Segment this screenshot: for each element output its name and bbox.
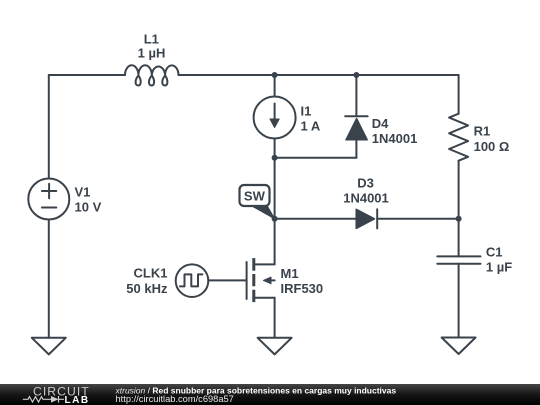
svg-text:1 µH: 1 µH bbox=[138, 46, 166, 61]
svg-text:CLK1: CLK1 bbox=[134, 266, 168, 281]
node top rail / D4 bbox=[353, 72, 359, 78]
svg-text:IRF530: IRF530 bbox=[281, 281, 324, 296]
svg-text:1N4001: 1N4001 bbox=[372, 131, 418, 146]
wire gate bbox=[208, 279, 246, 281]
wire D3 cathode to R1/C1 node bbox=[377, 218, 458, 220]
node R1 / D3 / C1 bbox=[456, 216, 462, 222]
wire top-left horizontal bbox=[49, 74, 125, 76]
svg-text:http://circuitlab.com/c698a57: http://circuitlab.com/c698a57 bbox=[116, 394, 234, 404]
clock source CLK1 bbox=[176, 264, 209, 297]
svg-text:R1: R1 bbox=[474, 124, 491, 139]
svg-text:1 µF: 1 µF bbox=[486, 260, 512, 275]
junction dots bbox=[272, 72, 462, 222]
wire D3 anode bbox=[275, 218, 357, 220]
capacitor C1 bbox=[437, 256, 480, 263]
voltage source V1 bbox=[28, 179, 69, 220]
svg-text:LAB: LAB bbox=[65, 395, 90, 405]
svg-text:M1: M1 bbox=[281, 266, 299, 281]
resistor R1 bbox=[449, 114, 468, 161]
wire top horizontal right bbox=[179, 74, 459, 76]
wire V1 to ground bbox=[48, 220, 50, 338]
wire D4 cathode to top rail bbox=[355, 75, 357, 116]
ground (left) bbox=[32, 338, 66, 355]
svg-text:D4: D4 bbox=[372, 116, 389, 131]
logo resistor-diode icon bbox=[23, 396, 64, 403]
svg-text:L1: L1 bbox=[144, 32, 159, 47]
inductor L1 bbox=[125, 65, 179, 85]
svg-text:1N4001: 1N4001 bbox=[343, 191, 389, 206]
svg-text:50 kHz: 50 kHz bbox=[126, 281, 168, 296]
node I1 / snubber bbox=[272, 155, 278, 161]
svg-text:I1: I1 bbox=[301, 104, 312, 119]
wire M1 source to ground bbox=[274, 298, 276, 338]
svg-text:V1: V1 bbox=[75, 185, 91, 200]
ground (center) bbox=[258, 338, 292, 355]
wire I1 top stub bbox=[274, 75, 276, 97]
svg-text:1 A: 1 A bbox=[301, 119, 321, 134]
wire R1 top stub bbox=[458, 75, 460, 114]
node SW junction bbox=[272, 216, 278, 222]
diode D3 bbox=[356, 209, 377, 228]
svg-text:C1: C1 bbox=[486, 245, 503, 260]
node top rail / I1 bbox=[272, 72, 278, 78]
wire left vertical (V1 top) bbox=[48, 75, 50, 179]
svg-text:D3: D3 bbox=[357, 176, 374, 191]
diode D4 bbox=[345, 116, 367, 140]
footer bar bbox=[0, 384, 540, 405]
wire R1 bottom to C1 bbox=[458, 161, 460, 257]
svg-text:100 Ω: 100 Ω bbox=[474, 139, 510, 154]
current source I1 bbox=[254, 97, 296, 139]
svg-text:10 V: 10 V bbox=[75, 200, 102, 215]
wire snubber branch horizontal bbox=[275, 157, 357, 159]
node SW label box bbox=[240, 185, 275, 219]
svg-text:SW: SW bbox=[244, 189, 266, 204]
transistor M1 bbox=[247, 258, 275, 302]
wire C1 to ground bbox=[458, 264, 460, 338]
wire I1 bottom to MOSFET drain bbox=[274, 139, 276, 265]
wire D4 anode stub bbox=[355, 140, 357, 158]
ground (right) bbox=[442, 338, 476, 355]
